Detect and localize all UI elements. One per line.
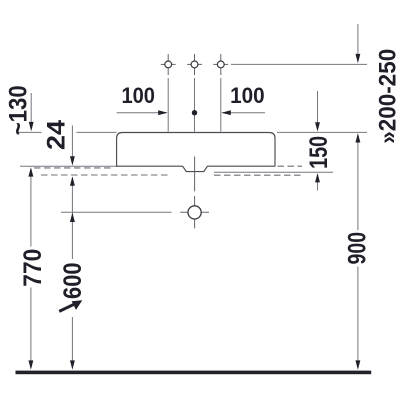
svg-text:»200-250: »200-250 [375, 49, 400, 144]
svg-text:770: 770 [19, 249, 47, 287]
svg-text:100: 100 [121, 83, 155, 108]
svg-text:100: 100 [230, 83, 265, 108]
svg-text:150: 150 [305, 136, 333, 169]
svg-text:600: 600 [59, 262, 87, 299]
svg-text:~130: ~130 [4, 85, 32, 135]
svg-text:900: 900 [344, 232, 372, 265]
svg-text:24: 24 [43, 120, 71, 150]
